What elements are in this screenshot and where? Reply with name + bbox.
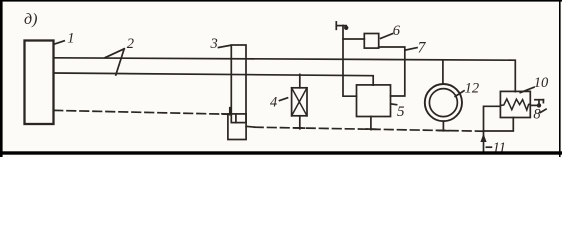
svg-text:д): д) bbox=[24, 11, 37, 28]
leader line to 3 bbox=[219, 45, 231, 47]
svg-text:10: 10 bbox=[534, 75, 549, 91]
label 5 bbox=[397, 104, 405, 120]
leader line to 1 bbox=[55, 41, 64, 44]
svg-text:6: 6 bbox=[393, 23, 401, 39]
plug cap end tick bbox=[335, 22, 337, 29]
wire: inner step in chamber 3 bbox=[235, 114, 237, 122]
leader fork to 2 (lower line) bbox=[116, 49, 124, 75]
valve 4 (square with X) bbox=[292, 88, 307, 116]
junction tick on dashed line near 3 bbox=[229, 108, 231, 115]
leader line to 6 bbox=[381, 34, 393, 39]
dash crossing under valve 4 stem bbox=[295, 127, 304, 129]
gauge 12 (double circle) bbox=[425, 84, 462, 121]
svg-text:5: 5 bbox=[397, 104, 405, 120]
leader line to 8 bbox=[540, 109, 546, 112]
label 11 bbox=[493, 140, 506, 156]
plug 8 cap end tick bbox=[542, 100, 544, 103]
wire: stem from line B down to valve 4 bbox=[299, 74, 301, 87]
svg-text:7: 7 bbox=[418, 39, 427, 56]
leader line to 12 bbox=[455, 91, 464, 97]
device 3 (narrow vertical chamber) bbox=[231, 45, 246, 123]
label д) bbox=[24, 11, 37, 28]
svg-text:2: 2 bbox=[127, 36, 134, 52]
svg-text:8: 8 bbox=[533, 106, 541, 122]
svg-text:1: 1 bbox=[67, 30, 74, 46]
plug 8 cap bar bbox=[535, 99, 544, 101]
label 12 bbox=[465, 81, 480, 97]
wire: outlet of 3, solid stub bbox=[246, 125, 254, 128]
leader fork to 2 (upper line) bbox=[105, 49, 124, 58]
wire: long dashed return line to junction under heater bbox=[255, 127, 484, 131]
wire: lower impulse line B into top of device 5 bbox=[54, 73, 373, 85]
label 1 bbox=[67, 30, 74, 46]
zigzag element inside 10 bbox=[500, 99, 530, 110]
wire: from junction right and up to bottom of heater 10 bbox=[484, 118, 514, 132]
label 7 bbox=[418, 39, 427, 56]
label 2 bbox=[127, 36, 134, 52]
wire 7: from right of 6 down into right side of 5 bbox=[379, 47, 405, 96]
label 4 bbox=[270, 94, 277, 110]
leader line to 10 bbox=[520, 87, 534, 92]
wire: stem from gauge 12 to dashed line bbox=[442, 121, 444, 131]
svg-text:3: 3 bbox=[210, 36, 218, 52]
drain plug 8: wire from right of heater bbox=[530, 104, 539, 106]
heater 10 (rectangle with zigzag) bbox=[500, 91, 530, 117]
wire: from plug cap down into left of 5 bbox=[343, 26, 357, 97]
label 3 bbox=[210, 36, 218, 52]
device 5 (rectangle block) bbox=[357, 85, 391, 117]
wire: inlet riser from junction to left of heater 10 bbox=[484, 106, 501, 131]
wire: stem from 5 to dashed line bbox=[370, 117, 372, 130]
plug cap bar near 6 bbox=[336, 25, 346, 27]
wire: stem from line A down to gauge 12 bbox=[442, 60, 444, 84]
dash crossing under 5 stem bbox=[366, 128, 375, 130]
wire: upper impulse line A to heater 10 bbox=[54, 58, 515, 92]
svg-text:4: 4 bbox=[270, 94, 277, 110]
wire: dashed line from tank 1 to device 3 bbox=[54, 110, 228, 114]
label 6 bbox=[393, 23, 401, 39]
device 6 (small rectangle) bbox=[364, 34, 378, 49]
tank 1 bbox=[25, 41, 54, 125]
plug 8 stem bbox=[538, 100, 540, 106]
label 8 bbox=[533, 106, 541, 122]
junction dot below cap bbox=[344, 26, 348, 30]
wire: stem from valve 4 to dashed line bbox=[299, 116, 301, 129]
dash crossing under 12 stem bbox=[439, 130, 449, 132]
leader line to 4 bbox=[280, 98, 288, 101]
leader line to 7 bbox=[406, 48, 417, 50]
plug 8 junction dot bbox=[537, 103, 541, 107]
leader line to 5 bbox=[391, 103, 397, 106]
device 3 lower chamber bbox=[228, 114, 246, 140]
arrowhead of 11 bbox=[480, 134, 486, 143]
arrow 11 riser from bottom edge bbox=[483, 131, 485, 151]
label 10 bbox=[534, 75, 549, 91]
wire: solid end of dashed line at 3 bbox=[222, 113, 231, 115]
svg-text:12: 12 bbox=[465, 81, 480, 97]
wire: from plug to left side of 6 bbox=[343, 38, 364, 40]
leader dash to 11 bbox=[486, 146, 491, 148]
